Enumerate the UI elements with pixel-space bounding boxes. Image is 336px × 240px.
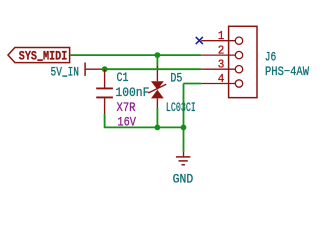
wire pin4 down to rail [183,84,185,128]
svg-text:3: 3 [218,58,225,72]
connector J6 body [229,26,257,97]
power symbol 5V_IN pin [85,68,105,70]
svg-text:2: 2 [218,43,225,57]
wire diode top tap [156,55,158,67]
capacitor C1 top plate [96,87,113,89]
wire pin4 horizontal [184,83,202,85]
svg-text:PHS−4AW: PHS−4AW [265,64,309,79]
wire 5V net horizontal [105,68,202,70]
global label SYS_MIDI [8,48,70,63]
wire net SYS_MIDI horizontal [70,54,201,56]
wire down to gnd [183,127,185,151]
diode D5 TVS body [151,81,164,98]
junction on SYS_MIDI wire [155,52,161,58]
svg-text:LC03CI: LC03CI [166,100,196,115]
wire diode bottom to rail [156,108,158,127]
junction on 5V wire [102,66,108,72]
ground symbol [176,152,191,165]
svg-text:D5: D5 [170,70,182,85]
capacitor C1 top pin [104,69,106,87]
svg-text:SYS MIDI: SYS MIDI [19,49,68,64]
wire bottom rail [104,126,184,128]
connector J6 pin 3 [201,68,235,70]
diode D5 slash [148,84,166,93]
connector J6 pin 1 [201,40,235,42]
capacitor C1 bottom plate [96,96,113,98]
connector J6 pin 4 [201,83,235,85]
svg-text:C1: C1 [117,70,129,85]
connector J6 pin 2 [201,54,235,56]
svg-text:GND: GND [173,172,194,187]
wire capacitor bottom to bottom rail [104,114,106,127]
diode D5 bottom pin [156,98,158,108]
svg-text:1: 1 [218,29,225,43]
power symbol 5V_IN bar [84,63,86,76]
capacitor C1 bottom pin [104,98,106,114]
svg-text:100nF: 100nF [115,85,149,100]
diode D5 top pin [156,66,158,81]
junction bottom rail at gnd [181,125,187,131]
svg-text:X7R: X7R [117,100,136,115]
no-connect X on pin 1 [196,37,203,44]
svg-text:J6: J6 [265,49,277,64]
svg-text:4: 4 [218,72,225,86]
junction bottom rail at diode [155,125,161,131]
svg-text:5V IN: 5V IN [51,65,80,80]
